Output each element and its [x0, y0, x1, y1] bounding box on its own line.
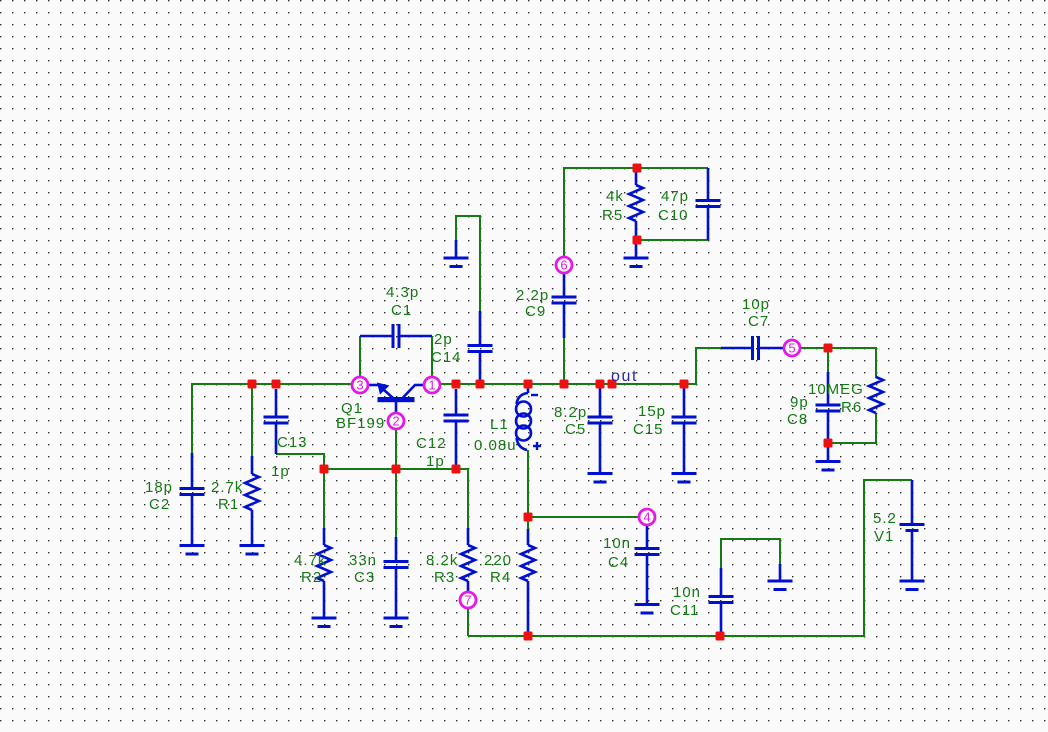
label L1 name [490, 416, 509, 433]
label C15 name [633, 421, 664, 438]
junction R1 [248, 380, 257, 389]
svg-text:C15: C15 [633, 421, 664, 438]
svg-text:C2: C2 [149, 496, 170, 513]
svg-text:C7: C7 [748, 313, 769, 330]
label C14 name [431, 349, 462, 366]
label C3 name [354, 569, 375, 586]
label C11 name [670, 602, 699, 619]
svg-text:R2: R2 [301, 569, 322, 586]
svg-text:10n: 10n [673, 584, 701, 601]
node 2 [388, 413, 404, 429]
label C13 value [271, 463, 290, 480]
svg-text:6: 6 [560, 258, 567, 273]
capacitor C11 10n [709, 568, 734, 636]
ground at C15 [672, 474, 697, 483]
voltage source V1 5.2 [900, 480, 925, 590]
junction C11 bottom [716, 632, 725, 641]
resistor R4 220 [521, 529, 535, 636]
label C1 name [391, 302, 412, 319]
label R1 value [211, 479, 243, 496]
svg-text:C5: C5 [565, 421, 586, 438]
node 3 [352, 377, 368, 393]
wire node 2 to emitter net [395, 429, 397, 469]
junction A [320, 465, 329, 474]
junction C15 [680, 380, 689, 389]
resistor R5 4k [629, 169, 643, 240]
transistor Q1 BF199 [368, 383, 423, 414]
ground at C3 [384, 618, 409, 627]
svg-text:C1: C1 [391, 302, 412, 319]
svg-text:220: 220 [484, 552, 512, 569]
svg-text:9p: 9p [790, 394, 809, 411]
svg-text:V1: V1 [874, 528, 894, 545]
wire emitter net horizontal [324, 468, 456, 470]
label C14 value [434, 331, 453, 348]
junction R5 top [633, 164, 642, 173]
node 6 [556, 257, 572, 273]
label Q1 type [336, 415, 385, 432]
resistor R1 2.7k [245, 456, 259, 545]
ground at R2 [312, 618, 337, 627]
label C7 value [742, 296, 770, 313]
wire C1 left leg [359, 336, 361, 378]
svg-text:47p: 47p [661, 188, 689, 205]
svg-text:2.2p: 2.2p [516, 287, 549, 304]
label R3 name [434, 569, 455, 586]
ground at C5 [588, 474, 613, 483]
label C10 value [661, 188, 689, 205]
svg-text:C9: C9 [525, 303, 546, 320]
wire R6 bottom link [828, 413, 876, 443]
svg-text:15p: 15p [638, 403, 666, 420]
wire left drop to C2 [191, 383, 193, 453]
label C5 name [565, 421, 586, 438]
junction R4 bottom [524, 632, 533, 641]
resistor R3 8.2k [461, 528, 475, 592]
svg-text:10p: 10p [742, 296, 770, 313]
svg-text:8.2k: 8.2k [426, 552, 458, 569]
inductor L1 0.08u [516, 384, 541, 450]
junction C9 [560, 380, 569, 389]
junction C8 top [824, 344, 833, 353]
label C12 value [426, 453, 445, 470]
label C9 name [525, 303, 546, 320]
wire node 5 to R6 [800, 348, 876, 378]
svg-text:C8: C8 [787, 411, 808, 428]
label C12 name [416, 435, 447, 452]
label C7 name [748, 313, 769, 330]
label R4 value [484, 552, 512, 569]
svg-text:1p: 1p [426, 453, 445, 470]
svg-text:C11: C11 [670, 602, 699, 619]
svg-text:BF199: BF199 [336, 415, 385, 432]
wire C11 top branch [721, 539, 780, 568]
svg-text:C4: C4 [608, 554, 629, 571]
ground right of C11 [768, 564, 793, 590]
svg-text:C13: C13 [277, 434, 308, 451]
svg-text:R5: R5 [602, 207, 623, 224]
svg-text:7: 7 [464, 593, 471, 608]
capacitor C14 2p [468, 311, 493, 384]
label C9 value [516, 287, 549, 304]
wire bottom net [468, 480, 912, 636]
svg-text:1: 1 [428, 378, 435, 393]
junction C12 bottom [452, 465, 461, 474]
junction C14 [476, 380, 485, 389]
svg-text:0.08u: 0.08u [474, 437, 517, 454]
label C8 name [787, 411, 808, 428]
label C10 name [658, 207, 689, 224]
wire L1 bottom to node 4 [528, 450, 639, 517]
svg-text:2: 2 [392, 414, 399, 429]
junction C8 bottom [824, 439, 833, 448]
wire main horizontal net right [440, 383, 696, 385]
wire C8 top stub [827, 348, 829, 373]
label R2 name [301, 569, 322, 586]
label C3 value [349, 552, 377, 569]
node out label [611, 368, 638, 385]
junction R5 bottom [633, 236, 642, 245]
svg-text:4k: 4k [606, 188, 624, 205]
svg-text:3: 3 [356, 378, 363, 393]
node 5 [784, 340, 800, 356]
label C11 value [673, 584, 701, 601]
capacitor C5 8.2p [588, 384, 613, 473]
ground top branch [444, 240, 469, 267]
svg-text:2p: 2p [434, 331, 453, 348]
svg-text:R4: R4 [490, 569, 511, 586]
capacitor C2 18p [180, 453, 205, 545]
capacitor C8 9p [816, 372, 841, 443]
svg-text:out: out [611, 368, 638, 385]
wire top ground branch [456, 216, 480, 240]
junction L1 bottom [524, 513, 533, 522]
node 1 [424, 377, 440, 393]
junction C5 [596, 380, 605, 389]
label R3 value [426, 552, 458, 569]
label Q1 name [341, 400, 363, 417]
svg-text:C10: C10 [658, 207, 689, 224]
svg-text:1p: 1p [271, 463, 290, 480]
wire C14 upper [479, 215, 481, 312]
wire R4 stub [527, 517, 529, 529]
svg-text:4.7k: 4.7k [294, 552, 326, 569]
svg-text:8.2p: 8.2p [554, 404, 587, 421]
svg-text:18p: 18p [145, 479, 173, 496]
svg-text:4: 4 [643, 510, 650, 525]
label V1 value [873, 510, 897, 527]
label R5 name [602, 207, 623, 224]
wire junction A down to R2 [323, 469, 325, 528]
wire C10 bottom link [637, 239, 708, 241]
wire main horizontal net left [192, 383, 353, 385]
svg-text:5: 5 [788, 341, 795, 356]
svg-text:4.3p: 4.3p [386, 284, 419, 301]
capacitor C3 33n [384, 537, 409, 617]
label V1 name [874, 528, 894, 545]
label C15 value [638, 403, 666, 420]
wire top supply loop [564, 168, 708, 257]
ground at C2 [180, 546, 205, 555]
capacitor C10 47p [696, 168, 721, 240]
svg-text:5.2: 5.2 [873, 510, 897, 527]
junction C13 [272, 380, 281, 389]
wire out net riser to C7 [684, 348, 722, 384]
capacitor C15 15p [672, 384, 697, 473]
junction L1 [524, 380, 533, 389]
svg-text:C12: C12 [416, 435, 447, 452]
junction C12 [452, 380, 461, 389]
ground at R1 [240, 546, 265, 555]
svg-text:C14: C14 [431, 349, 462, 366]
wire R1 stub [251, 384, 253, 456]
label C13 name [277, 434, 308, 451]
label C4 name [608, 554, 629, 571]
wire emitter net to R3 [456, 469, 468, 528]
label C1 value [386, 284, 419, 301]
label C2 value [145, 479, 173, 496]
ground at C4 [635, 605, 660, 614]
label R2 value [294, 552, 326, 569]
label R4 name [490, 569, 511, 586]
resistor R6 10MEG [869, 377, 883, 414]
capacitor C12 1p [444, 389, 469, 465]
wire node 7 to bottom net [467, 608, 469, 636]
label R6 value [808, 381, 864, 398]
wire C13 to junction A [276, 454, 324, 469]
node 7 [460, 592, 476, 608]
label R1 name [218, 496, 239, 513]
label R5 value [606, 188, 624, 205]
wire C3 stub [395, 469, 397, 538]
svg-text:R3: R3 [434, 569, 455, 586]
capacitor C13 1p [264, 389, 289, 454]
capacitor C9 2.2p [552, 273, 577, 338]
label L1 value [474, 437, 517, 454]
svg-text:2.7k: 2.7k [211, 479, 243, 496]
node 4 [639, 509, 655, 525]
capacitor C1 4.3p [360, 324, 432, 348]
junction base net [392, 465, 401, 474]
svg-text:10n: 10n [603, 535, 631, 552]
wire C1 right leg [431, 336, 433, 378]
svg-text:L1: L1 [490, 416, 509, 433]
label R6 name [841, 399, 862, 416]
capacitor C4 10n [635, 526, 660, 604]
label C4 value [603, 535, 631, 552]
junction out [608, 380, 617, 389]
svg-text:R1: R1 [218, 496, 239, 513]
ground at C8 [816, 443, 841, 470]
svg-text:10MEG: 10MEG [808, 381, 864, 398]
resistor R2 4.7k [317, 528, 331, 617]
wire C9 lower [563, 337, 565, 384]
label C2 name [149, 496, 170, 513]
ground at R5 [624, 240, 649, 267]
svg-text:C3: C3 [354, 569, 375, 586]
capacitor C7 10p [721, 336, 783, 360]
svg-text:R6: R6 [841, 399, 862, 416]
label C5 value [554, 404, 587, 421]
label C8 value [790, 394, 809, 411]
svg-text:33n: 33n [349, 552, 377, 569]
